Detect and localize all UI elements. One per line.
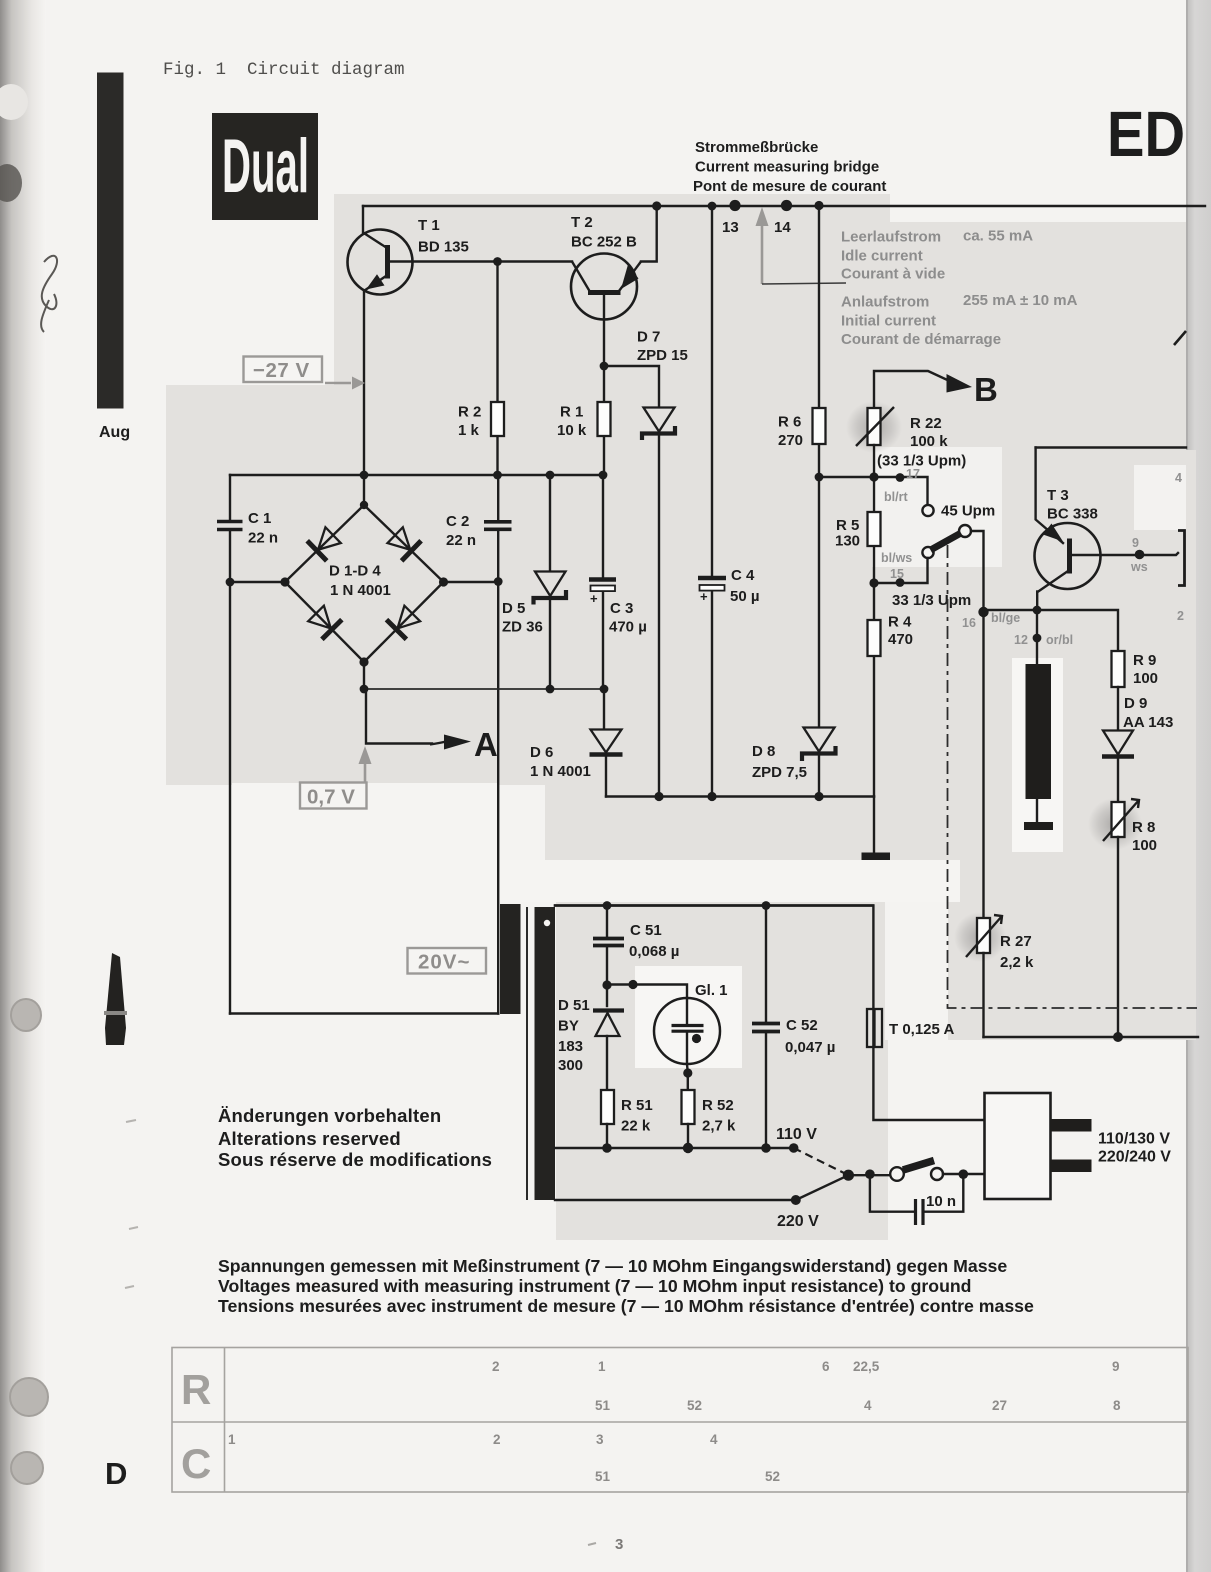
- svg-text:2,2 k: 2,2 k: [1000, 954, 1034, 971]
- svg-text:bl/ge: bl/ge: [991, 611, 1020, 625]
- svg-text:1 k: 1 k: [458, 422, 480, 439]
- transistor T3: [1035, 448, 1101, 613]
- left margin black bar: [97, 73, 124, 409]
- diode D3 bottom-left: [306, 604, 342, 640]
- svg-text:33 1/3 Upm: 33 1/3 Upm: [892, 592, 971, 609]
- wire rail R6-R22-17: [819, 477, 928, 504]
- svg-text:45 Upm: 45 Upm: [941, 503, 995, 520]
- svg-text:51: 51: [595, 1469, 611, 1484]
- Dual logo: [212, 113, 318, 220]
- wire T1 emitter to -27V rail: [363, 291, 365, 476]
- svg-text:T 3: T 3: [1047, 487, 1069, 504]
- svg-text:52: 52: [765, 1469, 780, 1484]
- svg-text:220 V: 220 V: [777, 1213, 819, 1230]
- bottom right rail wire: [984, 1036, 1199, 1038]
- node R5/R4: [869, 578, 878, 587]
- grey scan wash: top block: [334, 194, 1186, 450]
- binder hole mid1: [11, 999, 41, 1031]
- node rail D5: [546, 471, 555, 480]
- svg-text:ED: ED: [1107, 98, 1185, 170]
- diode D9 AA143: [1102, 695, 1173, 802]
- capacitor C52: [752, 906, 835, 1149]
- mechanical coupling dash-dot line: [948, 545, 1198, 1008]
- node 16 bl/ge: [978, 607, 988, 617]
- svg-text:R 2: R 2: [458, 404, 481, 421]
- svg-text:BD 135: BD 135: [418, 239, 469, 256]
- svg-text:2,7 k: 2,7 k: [702, 1118, 736, 1135]
- svg-text:130: 130: [835, 533, 860, 550]
- svg-text:10 n: 10 n: [926, 1193, 956, 1210]
- ground rail 0V wire: [364, 688, 605, 690]
- node R22/R5: [869, 472, 878, 481]
- svg-text:Leerlaufstrom: Leerlaufstrom: [841, 229, 941, 246]
- svg-text:183: 183: [558, 1038, 583, 1055]
- svg-text:3: 3: [615, 1536, 623, 1553]
- dashed 110V selector link: [794, 1148, 846, 1174]
- wire to D7: [604, 366, 659, 407]
- white band above lower section: [500, 860, 960, 902]
- svg-text:0,068 µ: 0,068 µ: [629, 943, 679, 960]
- node 110V tap: [789, 1143, 799, 1153]
- node gnd C3: [600, 685, 609, 694]
- svg-text:13: 13: [722, 219, 739, 236]
- svg-text:1 N 4001: 1 N 4001: [530, 763, 591, 780]
- node C2 column: [494, 577, 503, 586]
- resistor R5: [835, 477, 881, 583]
- svg-text:R 27: R 27: [1000, 933, 1032, 950]
- node C1 column: [226, 578, 235, 587]
- chassis ground bar: [873, 797, 875, 854]
- wire 16 to motor and R9: [984, 610, 1119, 651]
- svg-text:100: 100: [1132, 837, 1157, 854]
- diode D51 BY183/300: [558, 985, 624, 1090]
- svg-text:0,047 µ: 0,047 µ: [785, 1039, 835, 1056]
- svg-text:D 7: D 7: [637, 329, 660, 346]
- svg-text:Alterations reserved: Alterations reserved: [218, 1128, 401, 1149]
- node 10n tap left: [865, 1169, 875, 1179]
- svg-text:0,7 V: 0,7 V: [307, 786, 355, 809]
- node 14 terminal: [781, 200, 792, 211]
- -27V label box: [244, 357, 366, 390]
- svg-text:C 3: C 3: [610, 600, 633, 617]
- mains switch: [890, 1161, 984, 1181]
- svg-text:D 5: D 5: [502, 600, 525, 617]
- svg-text:Courant de démarrage: Courant de démarrage: [841, 331, 1001, 348]
- svg-text:Courant à vide: Courant à vide: [841, 266, 945, 283]
- svg-text:C: C: [181, 1440, 211, 1487]
- smudge blob behind R22: [846, 401, 902, 453]
- svg-text:8: 8: [1113, 1398, 1121, 1413]
- D8 column wire: [818, 477, 820, 727]
- B test point arrow: [947, 371, 998, 408]
- svg-text:Aug: Aug: [99, 424, 130, 441]
- resistor R9: [1112, 651, 1159, 730]
- svg-text:AA 143: AA 143: [1123, 714, 1173, 731]
- svg-text:Idle current: Idle current: [841, 248, 923, 265]
- speed switch wiper: [922, 525, 983, 612]
- svg-text:ca. 55 mA: ca. 55 mA: [963, 228, 1033, 245]
- svg-text:27: 27: [992, 1398, 1007, 1413]
- fuse T0.125A: [555, 906, 985, 1121]
- svg-text:bl/ws: bl/ws: [881, 551, 912, 565]
- svg-text:R 5: R 5: [836, 517, 859, 534]
- svg-text:100: 100: [1133, 670, 1158, 687]
- node 17 contact: [896, 473, 905, 482]
- wire T2 collector down: [603, 293, 605, 366]
- svg-text:14: 14: [774, 219, 791, 236]
- capacitor 10n: [870, 1174, 963, 1225]
- svg-text:22 k: 22 k: [621, 1118, 651, 1135]
- svg-text:22 n: 22 n: [446, 532, 476, 549]
- svg-text:220/240 V: 220/240 V: [1098, 1149, 1171, 1166]
- node selector common: [843, 1170, 854, 1181]
- svg-text:22 n: 22 n: [248, 530, 278, 547]
- handwriting squiggle: [41, 256, 57, 332]
- capacitor C4 electrolytic: [698, 206, 760, 798]
- svg-text:R 1: R 1: [560, 404, 583, 421]
- svg-text:D 8: D 8: [752, 743, 775, 760]
- trimmer R8: [1103, 799, 1157, 1037]
- node rail D7: [654, 792, 663, 801]
- grey scan wash: middle block: [334, 450, 950, 785]
- svg-text:D 1-D 4: D 1-D 4: [329, 563, 381, 580]
- resistor R4: [868, 583, 914, 797]
- svg-text:(33 1/3 Upm): (33 1/3 Upm): [877, 453, 966, 470]
- smudge blob behind R8: [1088, 798, 1142, 850]
- svg-text:110/130 V: 110/130 V: [1098, 1131, 1170, 1148]
- diode D7 zener ZPD15: [637, 329, 688, 798]
- svg-text:Änderungen vorbehalten: Änderungen vorbehalten: [218, 1105, 441, 1126]
- svg-text:R 8: R 8: [1132, 819, 1155, 836]
- svg-text:16: 16: [962, 616, 976, 630]
- left margin pen wedge: [105, 953, 126, 1045]
- svg-text:T 2: T 2: [571, 214, 593, 231]
- svg-text:C 1: C 1: [248, 510, 271, 527]
- capacitor C3 electrolytic: [589, 475, 647, 690]
- resistor R52: [682, 1073, 737, 1148]
- diode D5 zener ZD36: [502, 475, 566, 690]
- diode D1 top-left: [307, 525, 343, 561]
- top supply rail wire: [363, 205, 1205, 207]
- trimmer R22: [856, 371, 966, 477]
- node lamp bottom: [683, 1068, 692, 1077]
- node 220V tap: [791, 1195, 801, 1205]
- diode D2 top-right: [385, 525, 421, 561]
- 0,7V label box with grey arrow: [300, 746, 372, 809]
- svg-text:2: 2: [1177, 609, 1184, 623]
- svg-text:R: R: [181, 1366, 211, 1413]
- svg-text:D: D: [105, 1456, 127, 1491]
- faint margin dashes: [126, 1120, 136, 1122]
- node gnd bridge: [360, 685, 369, 694]
- white patch top right above idle text: [890, 194, 1186, 222]
- resistor R2: [458, 262, 504, 476]
- svg-text:ws: ws: [1130, 560, 1148, 574]
- T3 top rail wire: [1036, 446, 1186, 448]
- 220V selector link wire: [796, 1175, 849, 1200]
- -27V rail wire: [230, 474, 604, 476]
- svg-text:BC 252 B: BC 252 B: [571, 234, 637, 251]
- grey measure arrow at 13/14: [756, 207, 847, 284]
- svg-text:10 k: 10 k: [557, 422, 587, 439]
- svg-text:50 µ: 50 µ: [730, 588, 760, 605]
- wire T1 collector drop: [362, 206, 364, 234]
- capacitor C1: [217, 475, 278, 1014]
- connector bracket right edge: [1178, 531, 1185, 586]
- node C52 bottom: [761, 1143, 771, 1153]
- svg-text:Initial current: Initial current: [841, 313, 936, 330]
- svg-text:Strommeßbrücke: Strommeßbrücke: [695, 139, 818, 156]
- svg-text:Tensions mesurées avec instrum: Tensions mesurées avec instrument de mes…: [218, 1296, 1034, 1316]
- node rail R1/C3: [599, 471, 608, 480]
- svg-text:470 µ: 470 µ: [609, 619, 647, 636]
- grey scan wash: left block (bridge area): [166, 385, 334, 785]
- node 15: [896, 578, 905, 587]
- trimmer R27: [966, 612, 1034, 1037]
- wire 15 contact elbow: [874, 558, 928, 583]
- svg-text:+: +: [590, 591, 598, 606]
- node C52 top: [762, 901, 771, 910]
- svg-text:BY: BY: [558, 1018, 579, 1035]
- white patch right edge connector: [1134, 465, 1186, 530]
- node 10n tap right: [959, 1169, 969, 1179]
- transistor T1: [348, 217, 469, 295]
- node C4 top rail: [708, 202, 717, 211]
- svg-text:R 6: R 6: [778, 414, 801, 431]
- node motor column: [1033, 606, 1042, 615]
- partial symbol diagonal at page edge: [1174, 331, 1186, 345]
- white patch transformer area: [232, 783, 499, 1014]
- node C51 top: [603, 901, 612, 910]
- resistor R51: [601, 1090, 653, 1148]
- node R8 bottom: [1113, 1032, 1123, 1042]
- svg-text:Gl. 1: Gl. 1: [695, 982, 728, 999]
- svg-text:1: 1: [228, 1432, 236, 1447]
- node rail R2/C2: [493, 471, 502, 480]
- svg-text:4: 4: [710, 1432, 718, 1447]
- wire to glow lamp: [607, 985, 687, 999]
- svg-text:4: 4: [1175, 471, 1182, 485]
- transistor T2: [571, 214, 641, 320]
- node 13 terminal: [729, 200, 740, 211]
- capacitor C51: [593, 906, 679, 986]
- svg-text:2: 2: [492, 1359, 500, 1374]
- voltage table: [172, 1348, 1188, 1493]
- svg-text:1 N 4001: 1 N 4001: [330, 582, 391, 599]
- motor M winding bar: [1024, 664, 1053, 830]
- diode D8 zener ZPD7.5: [752, 728, 836, 797]
- svg-text:R 9: R 9: [1133, 652, 1156, 669]
- svg-text:+: +: [700, 589, 708, 604]
- svg-text:A: A: [474, 726, 498, 763]
- node T2 collector / R1 / D7: [600, 362, 609, 371]
- wire bridge left AC: [230, 581, 285, 583]
- svg-text:C 51: C 51: [630, 922, 662, 939]
- node T1 base / R2: [493, 257, 502, 266]
- white patch 45 Upm / switch: [872, 447, 1002, 567]
- svg-text:4: 4: [864, 1398, 872, 1413]
- lower section top rail wire: [555, 904, 873, 906]
- A test point arrow: [366, 689, 498, 763]
- white patch glow lamp: [635, 966, 742, 1068]
- svg-text:ZPD 15: ZPD 15: [637, 347, 688, 364]
- mains plug connector: [985, 1093, 1172, 1199]
- svg-text:Sous réserve de modifications: Sous réserve de modifications: [218, 1149, 492, 1170]
- svg-text:bl/rt: bl/rt: [884, 490, 908, 504]
- transformer core line: [526, 907, 528, 1200]
- node R6 bottom: [815, 473, 824, 482]
- svg-text:12: 12: [1014, 633, 1028, 647]
- white patch motor: [1012, 658, 1063, 852]
- svg-text:Pont de mesure de courant: Pont de mesure de courant: [693, 178, 886, 195]
- svg-text:R 52: R 52: [702, 1097, 734, 1114]
- node R52 bottom: [683, 1143, 693, 1153]
- 20V~ label box: [408, 948, 487, 974]
- svg-text:9: 9: [1132, 536, 1139, 550]
- svg-text:22,5: 22,5: [853, 1359, 880, 1374]
- lower minus rail wire: [606, 795, 874, 797]
- svg-text:470: 470: [888, 631, 913, 648]
- node T2 emitter rail: [652, 201, 661, 210]
- svg-text:2: 2: [493, 1432, 501, 1447]
- binder dark blob: [0, 164, 22, 202]
- svg-text:Anlaufstrom: Anlaufstrom: [841, 294, 929, 311]
- svg-text:Voltages measured with measuri: Voltages measured with measuring instrum…: [218, 1276, 971, 1296]
- transformer secondary loop bottom wire: [230, 1012, 498, 1014]
- grey scan wash: mid lower strip: [545, 785, 950, 862]
- contact 45 Upm: [922, 503, 995, 520]
- svg-text:52: 52: [687, 1398, 702, 1413]
- svg-text:−27 V: −27 V: [253, 359, 310, 382]
- svg-text:T 0,125 A: T 0,125 A: [889, 1021, 954, 1038]
- svg-text:110 V: 110 V: [776, 1126, 817, 1143]
- T3 base wire to connector 9: [1072, 553, 1178, 555]
- svg-text:R 4: R 4: [888, 614, 912, 631]
- svg-text:C 2: C 2: [446, 513, 469, 530]
- svg-text:T 1: T 1: [418, 217, 440, 234]
- svg-text:ZD 36: ZD 36: [502, 619, 543, 636]
- diode D6 1N4001: [530, 689, 623, 797]
- wire common to switch: [848, 1174, 890, 1176]
- node rail C4: [707, 792, 716, 801]
- wire bridge right AC: [444, 581, 499, 583]
- svg-text:R 22: R 22: [910, 415, 942, 432]
- binder hole bottom: [11, 1452, 43, 1484]
- wire T1 base line: [390, 260, 573, 262]
- node 12 or/bl: [1033, 634, 1042, 643]
- left page edge gradient: [0, 0, 46, 1572]
- transformer winding bar primary: [535, 907, 556, 1200]
- svg-text:C 4: C 4: [731, 567, 755, 584]
- grey scan wash: right tall block: [948, 450, 1196, 1040]
- svg-text:Current measuring bridge: Current measuring bridge: [695, 159, 879, 176]
- resistor R6: [778, 206, 826, 477]
- svg-text:3: 3: [596, 1432, 604, 1447]
- svg-text:Spannungen gemessen mit Meßins: Spannungen gemessen mit Meßinstrument (7…: [218, 1256, 1007, 1276]
- svg-text:300: 300: [558, 1057, 583, 1074]
- transformer winding bar secondary: [500, 904, 521, 1014]
- node gnd D5: [546, 685, 555, 694]
- svg-text:BC 338: BC 338: [1047, 506, 1098, 523]
- svg-text:100 k: 100 k: [910, 433, 948, 450]
- capacitor C2: [446, 475, 512, 1014]
- svg-text:B: B: [974, 371, 998, 408]
- right page edge shadow strip: [1186, 0, 1211, 1572]
- node R51 bottom: [602, 1143, 612, 1153]
- svg-text:255 mA ± 10 mA: 255 mA ± 10 mA: [963, 292, 1078, 309]
- svg-text:ZPD 7,5: ZPD 7,5: [752, 764, 807, 781]
- svg-text:20V~: 20V~: [418, 951, 470, 974]
- svg-text:D 9: D 9: [1124, 695, 1147, 712]
- svg-text:C 52: C 52: [786, 1017, 818, 1034]
- glow lamp Gl.1: [654, 982, 728, 1073]
- node rail D8: [814, 792, 823, 801]
- svg-text:6: 6: [822, 1359, 830, 1374]
- resistor R1: [557, 366, 611, 475]
- svg-text:270: 270: [778, 432, 803, 449]
- svg-text:51: 51: [595, 1398, 611, 1413]
- svg-text:1: 1: [598, 1359, 606, 1374]
- svg-text:Fig. 1 Circuit diagram: Fig. 1 Circuit diagram: [163, 60, 405, 80]
- binder hole top: [0, 84, 28, 120]
- svg-text:9: 9: [1112, 1359, 1120, 1374]
- node rail T1: [360, 471, 369, 480]
- svg-text:or/bl: or/bl: [1046, 633, 1073, 647]
- binder hole mid2: [10, 1378, 48, 1416]
- 220V rail wire: [555, 1199, 796, 1201]
- node D51 junction: [602, 980, 611, 989]
- smudge blob behind R27: [954, 912, 1006, 962]
- svg-text:D 51: D 51: [558, 997, 590, 1014]
- wire motor column: [1036, 610, 1038, 664]
- svg-text:D 6: D 6: [530, 744, 553, 761]
- diode D4 bottom-right: [386, 604, 422, 640]
- svg-text:Dual: Dual: [222, 124, 309, 209]
- grey scan wash: lower middle block: [556, 902, 885, 1240]
- wire T2 emitter up to rail: [641, 206, 657, 262]
- bridge rectifier D1-D4: [280, 475, 448, 690]
- node lamp elbow: [628, 980, 637, 989]
- svg-text:R 51: R 51: [621, 1097, 653, 1114]
- 110V rail wire: [555, 1147, 794, 1149]
- node R6 top rail: [814, 201, 823, 210]
